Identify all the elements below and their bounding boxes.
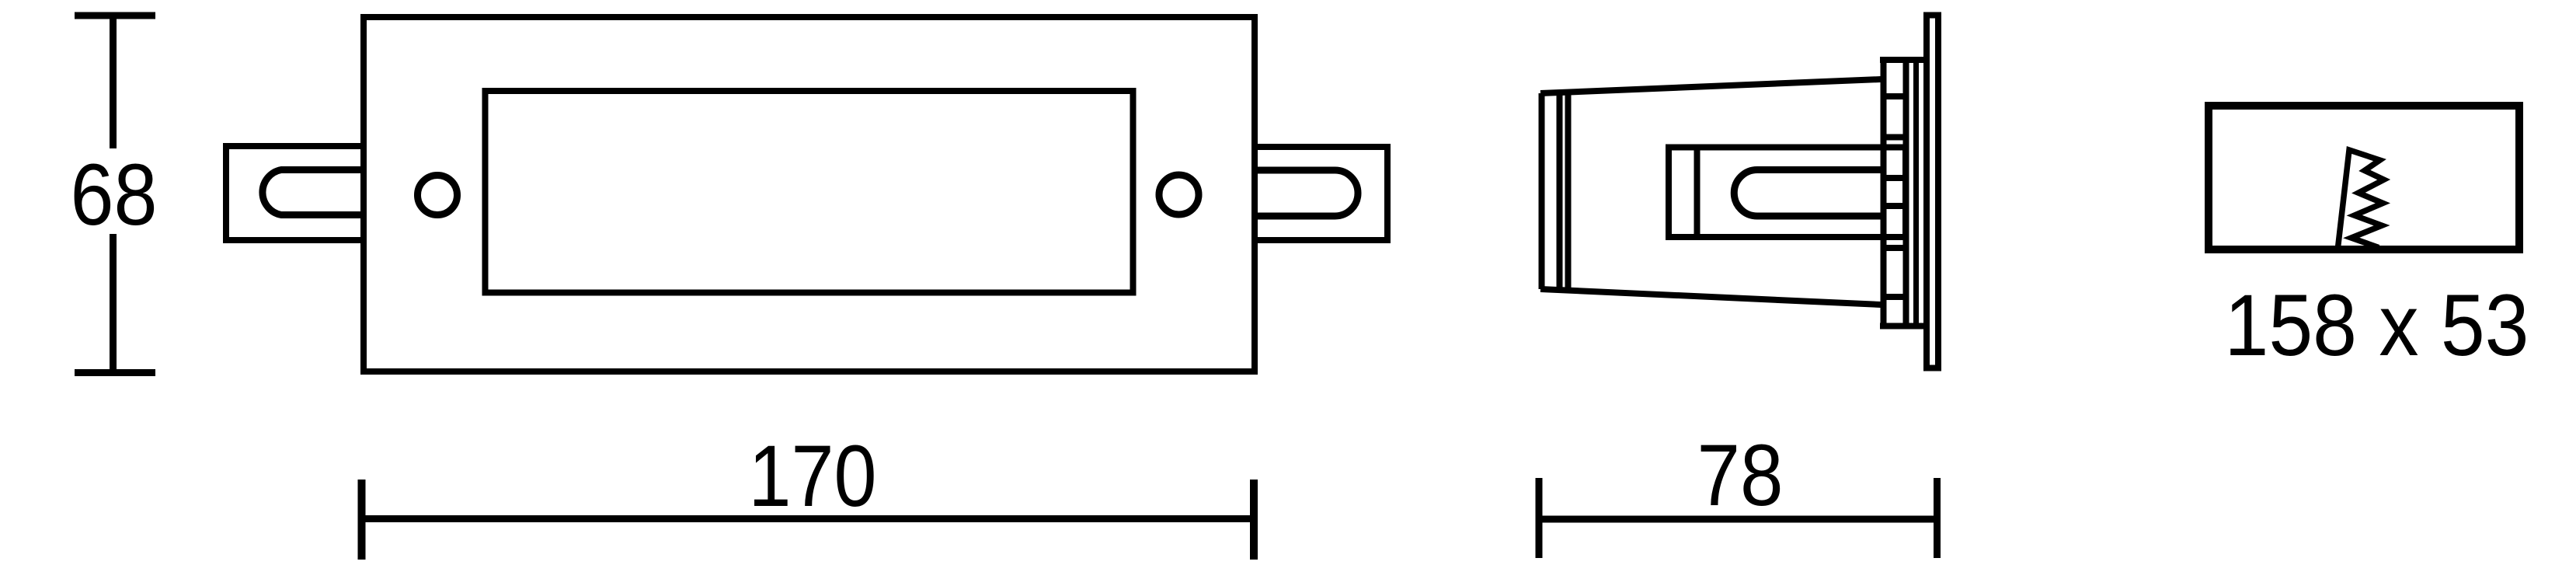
svg-text:68: 68 bbox=[71, 146, 158, 243]
svg-text:170: 170 bbox=[749, 427, 877, 525]
svg-text:78: 78 bbox=[1697, 427, 1784, 524]
svg-text:158 x 53: 158 x 53 bbox=[2225, 277, 2529, 374]
